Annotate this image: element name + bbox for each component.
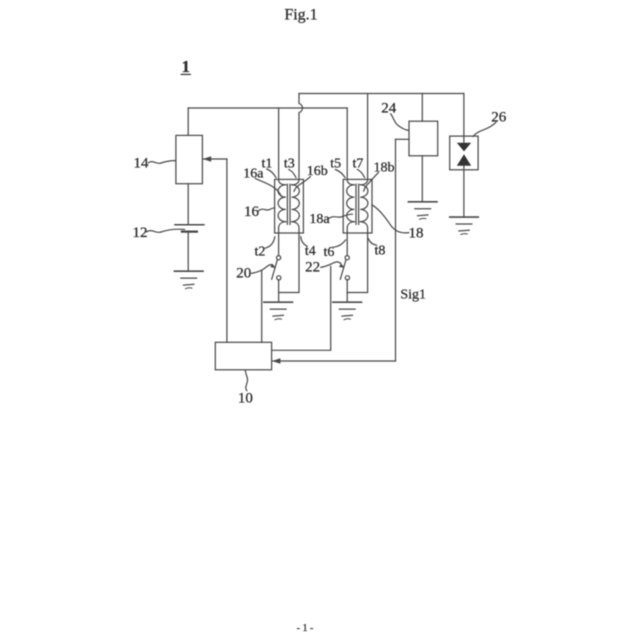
svg-text:18a: 18a <box>309 212 330 227</box>
svg-text:t4: t4 <box>305 244 316 259</box>
wire: top horizontal line t3 to 26 <box>299 93 464 95</box>
svg-text:16: 16 <box>244 204 260 220</box>
wire: feedback line into box14 with arrow <box>204 158 227 160</box>
leader t2 <box>265 237 275 248</box>
leader 16b <box>294 177 310 192</box>
leader arrow 22 <box>321 262 341 267</box>
wire: t5 drop from bus corner to transformer18 <box>346 108 348 179</box>
svg-text:1: 1 <box>182 57 190 76</box>
leader 24 <box>391 114 409 131</box>
svg-text:Fig.1: Fig.1 <box>284 7 317 24</box>
wire: t8 down and to switch22 leg <box>347 233 367 293</box>
transformer 18 <box>343 179 372 233</box>
ground under switch 22 <box>333 302 362 320</box>
wire: Sig1 horizontal into box10 with arrow <box>273 360 396 362</box>
leader 10 <box>245 370 247 390</box>
block 10 <box>215 342 271 370</box>
leader t7 <box>357 170 364 178</box>
svg-text:20: 20 <box>236 265 251 281</box>
wire: control line to switch 20 <box>261 271 263 343</box>
leader 14 <box>148 161 175 164</box>
wire: box26 bottom pin <box>463 170 465 217</box>
leader t4 <box>301 237 307 247</box>
leader 16 <box>258 208 274 211</box>
wire: box24 left pin to Sig1 line <box>396 138 410 140</box>
wire: horizontal bus from box14 to t5 corner <box>188 107 347 109</box>
wire: t3 vertical with hop over bus <box>299 94 302 180</box>
svg-text:t2: t2 <box>255 244 266 259</box>
svg-text:Sig1: Sig1 <box>400 287 426 302</box>
wire: box24 bottom pin <box>421 156 423 202</box>
wire: switch 20 to ground <box>278 280 280 302</box>
ground under switch 20 <box>264 302 293 320</box>
leader t8 <box>368 239 376 246</box>
svg-text:18: 18 <box>409 225 424 241</box>
wire: t2 down to switch 20 <box>278 233 280 256</box>
svg-text:t8: t8 <box>375 244 386 259</box>
svg-text:12: 12 <box>133 225 148 241</box>
leader 18 <box>372 205 409 233</box>
wire: control line to switch 22 <box>272 266 331 350</box>
leader 18b <box>364 173 379 192</box>
leader t5 <box>335 170 345 178</box>
svg-text:10: 10 <box>238 391 253 407</box>
svg-text:t5: t5 <box>330 157 341 172</box>
leader t6 <box>334 240 346 247</box>
wire: box14 bottom to battery <box>187 184 189 225</box>
ground under box 24 <box>408 202 437 220</box>
arrowhead into box14 <box>203 156 211 162</box>
leader 12 <box>147 229 185 232</box>
wire: Sig1 vertical <box>395 139 397 361</box>
wire: t4 down and to switch20 leg <box>279 233 299 293</box>
svg-text:16b: 16b <box>307 164 328 179</box>
svg-text:26: 26 <box>491 109 507 125</box>
wire: t7 drop from top line <box>367 94 369 180</box>
leader 16a <box>255 179 281 197</box>
wire: t1 drop from bus to transformer16 <box>278 108 280 179</box>
battery 12 plates <box>175 224 204 226</box>
leader t3 <box>289 170 296 178</box>
svg-text:22: 22 <box>305 259 320 275</box>
wire: battery to ground <box>187 232 189 272</box>
ground under battery <box>174 271 203 289</box>
wire: box14 top pin up <box>187 108 189 135</box>
switch 22 <box>340 256 349 280</box>
switch 20 <box>272 256 281 280</box>
svg-text:14: 14 <box>134 155 150 171</box>
block 24 <box>409 121 438 156</box>
svg-text:24: 24 <box>381 101 397 117</box>
transformer 16 <box>275 179 304 233</box>
surge absorber 26 <box>450 136 478 170</box>
svg-text:t6: t6 <box>324 245 335 260</box>
leader arrow 20 <box>252 265 274 274</box>
wire: box26 top pin <box>463 94 465 137</box>
svg-text:- 1 -: - 1 - <box>297 623 314 634</box>
ground under 26 <box>450 217 479 235</box>
svg-text:t7: t7 <box>353 157 364 172</box>
wire: t6 down to switch 22 <box>346 233 348 256</box>
leader t1 <box>267 169 276 178</box>
svg-text:t1: t1 <box>262 156 273 171</box>
wire: switch 22 to ground <box>346 280 348 302</box>
leader 26 <box>473 122 496 136</box>
leader 18a <box>329 214 353 218</box>
svg-text:t3: t3 <box>284 156 295 171</box>
svg-text:18b: 18b <box>374 160 395 175</box>
block 14 <box>176 135 203 183</box>
wire: box24 top pin <box>421 94 423 122</box>
